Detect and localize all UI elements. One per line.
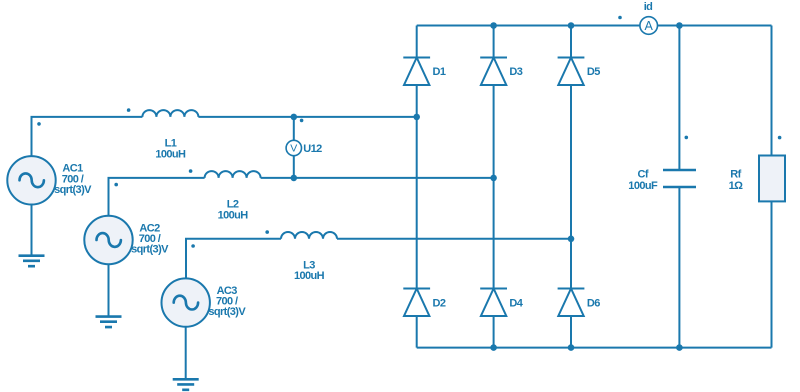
svg-text:100uF: 100uF bbox=[628, 180, 658, 192]
svg-text:sqrt(3)V: sqrt(3)V bbox=[208, 306, 246, 318]
svg-text:100uH: 100uH bbox=[218, 209, 249, 221]
svg-text:D6: D6 bbox=[587, 297, 600, 309]
svg-text:D4: D4 bbox=[509, 297, 523, 309]
svg-text:sqrt(3)V: sqrt(3)V bbox=[54, 184, 92, 196]
svg-text:U12: U12 bbox=[303, 143, 322, 155]
svg-text:V: V bbox=[290, 143, 297, 155]
svg-text:100uH: 100uH bbox=[155, 148, 186, 160]
svg-text:Rf: Rf bbox=[730, 169, 741, 181]
svg-text:100uH: 100uH bbox=[294, 270, 325, 282]
svg-text:1Ω: 1Ω bbox=[729, 180, 744, 192]
svg-text:Cf: Cf bbox=[637, 169, 648, 181]
svg-text:D2: D2 bbox=[433, 297, 446, 309]
svg-text:id: id bbox=[644, 1, 653, 13]
svg-text:D3: D3 bbox=[509, 66, 522, 78]
svg-text:D5: D5 bbox=[587, 66, 600, 78]
svg-text:D1: D1 bbox=[433, 66, 446, 78]
svg-text:sqrt(3)V: sqrt(3)V bbox=[131, 244, 169, 256]
svg-text:A: A bbox=[645, 19, 654, 33]
